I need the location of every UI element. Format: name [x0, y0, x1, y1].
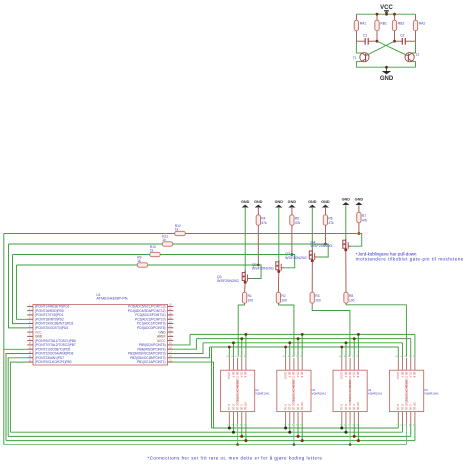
wire GND to Q1 drain	[244, 208, 246, 271]
svg-text:T2: T2	[415, 53, 419, 57]
wire drop bus 3 to display U4	[345, 343, 347, 358]
svg-text:R1: R1	[248, 294, 252, 298]
pin 18 stub (right)	[168, 348, 174, 350]
wire R4 bottom lead to gate net	[257, 225, 259, 265]
svg-text:(10) G: (10) G	[396, 372, 400, 379]
pin stub top 1 of U4	[341, 358, 343, 370]
7-segment display U4 VQMR10A1 body	[333, 370, 367, 411]
pin 7 stub (left)	[27, 331, 33, 333]
IC U1 ATMEGA328P-PN body	[33, 304, 168, 365]
wire drop bus 3 to display U2	[232, 343, 234, 358]
resistor RA1	[354, 20, 358, 31]
wire gate net R10 right segment	[160, 254, 295, 256]
resistor R8 100	[344, 292, 348, 303]
svg-text:R7: R7	[362, 214, 366, 218]
transistor Q1 WSF20N20G	[244, 271, 246, 282]
svg-text:(7) A: (7) A	[352, 372, 356, 378]
node R5 junction on gate wire	[291, 253, 294, 256]
svg-text:47k: 47k	[362, 218, 368, 222]
transistor Q3 WSF20N20G	[311, 250, 313, 261]
svg-text:DP (5): DP (5)	[244, 402, 248, 410]
svg-text:GND: GND	[380, 76, 394, 82]
wire RA1 to C1	[355, 31, 357, 42]
wire IC right pin row 10 to top bus 1	[173, 334, 190, 345]
pin 8 stub (left)	[27, 335, 33, 337]
wire rise bottom bus C to display U2	[241, 424, 243, 437]
svg-text:47k: 47k	[261, 221, 267, 225]
pin 28 stub (right)	[168, 305, 174, 307]
svg-text:100: 100	[281, 298, 287, 302]
wire gate elbow to Q1	[251, 265, 261, 279]
svg-text:(6) B: (6) B	[244, 372, 248, 378]
wire gate net R12 right segment	[185, 233, 362, 235]
pin 23 stub (right)	[168, 327, 174, 329]
pin 1 stub (left)	[27, 305, 33, 307]
wire RA2 top lead	[415, 14, 417, 20]
node bottom bus COMMON junction U2	[236, 443, 239, 446]
pin stub top 4 of U3	[297, 358, 299, 370]
svg-text:(7) A: (7) A	[296, 372, 300, 378]
svg-text:DP (5): DP (5)	[413, 402, 417, 410]
svg-text:C (4): C (4)	[409, 404, 413, 410]
resistor R9 1k (series gate)	[137, 263, 148, 267]
node bottom bus D junction U4	[344, 431, 347, 434]
resistor R6 47k pull-down	[323, 215, 327, 226]
wire rise bottom bus COMMON to display U3	[293, 424, 295, 445]
node bus 1 junction display U4	[357, 333, 360, 336]
wire PD5 pin row to left vertical	[4, 348, 27, 350]
svg-text:E (1): E (1)	[283, 404, 287, 410]
svg-text:ATMEGA328P-PN: ATMEGA328P-PN	[96, 297, 127, 301]
svg-text:GND: GND	[321, 200, 330, 204]
svg-text:RB2: RB2	[398, 22, 405, 26]
svg-text:VQMR10A1: VQMR10A1	[424, 392, 439, 396]
pin 10 stub (left)	[27, 344, 33, 346]
svg-text:(9) F: (9) F	[344, 372, 348, 378]
svg-text:DP (5): DP (5)	[300, 402, 304, 410]
pin stub top 3 of U2	[237, 358, 239, 370]
svg-text:(6) B: (6) B	[413, 372, 417, 378]
wire rise bottom bus DP to display U5	[414, 424, 416, 441]
wire bottom bus D	[10, 431, 402, 433]
wire PD6 loop to bottom DP bus	[6, 354, 27, 441]
svg-text:T1: T1	[353, 56, 357, 60]
wire drop bus 1 to display U3	[301, 334, 303, 357]
node bus 1 junction display U2	[245, 333, 248, 336]
svg-text:VQMR10A1: VQMR10A1	[368, 392, 383, 396]
wire drop bus 2 to display U2	[241, 339, 243, 358]
resistor R12 1k (series gate)	[175, 231, 186, 235]
pin stub top 1 of U5	[397, 358, 399, 370]
wire IC right pin row 11 to top bus 2	[173, 339, 196, 350]
wire GND to Q2 drain	[278, 208, 280, 260]
wire gate net R12 left segment	[4, 233, 175, 235]
svg-text:COMMON CATHODE (3): COMMON CATHODE (3)	[348, 380, 352, 410]
resistor R2 100	[276, 292, 280, 303]
pin 27 stub (right)	[168, 310, 174, 312]
svg-text:COMMON CATHODE (3): COMMON CATHODE (3)	[292, 380, 296, 410]
svg-text:*Connections her ser litt rare: *Connections her ser litt rare ut, men d…	[148, 455, 323, 460]
pin 20 stub (right)	[168, 340, 174, 342]
svg-text:E (1): E (1)	[396, 404, 400, 410]
wire PD7 loop to bottom C bus	[8, 358, 27, 437]
svg-text:COMMON CATHODE (3): COMMON CATHODE (3)	[404, 380, 408, 410]
pin stub top 3 of U5	[406, 358, 408, 370]
svg-text:47k: 47k	[328, 221, 334, 225]
node bottom bus COMMON junction U4	[349, 443, 352, 446]
wire bottom bus E	[212, 427, 399, 429]
pin stub top 1 of U3	[285, 358, 287, 370]
svg-text:WSF20N20G: WSF20N20G	[311, 244, 333, 248]
svg-text:GND: GND	[288, 200, 297, 204]
wire rise bottom bus DP to display U3	[301, 424, 303, 441]
svg-text:R6: R6	[328, 217, 332, 221]
wire PB0 loop to bottom D bus	[10, 362, 27, 432]
svg-text:(7) A: (7) A	[240, 372, 244, 378]
node bottom bus C junction U2	[240, 435, 243, 438]
svg-text:GND: GND	[275, 200, 284, 204]
wire Q1 to R1	[244, 282, 247, 292]
wire gate elbow to Q4	[352, 234, 362, 247]
wire rise bottom bus E to display U4	[341, 424, 343, 429]
svg-text:(10) G: (10) G	[340, 372, 344, 379]
wire rise bottom bus DP to display U2	[245, 424, 247, 441]
wire rise bottom bus E to display U3	[285, 424, 287, 429]
node R4 junction on gate wire	[257, 264, 260, 267]
wire IC right pin row 13 to top bus 4	[173, 347, 209, 358]
svg-text:U3: U3	[312, 388, 316, 392]
svg-text:(7) A: (7) A	[409, 372, 413, 378]
wire R8 to display U5 common	[345, 303, 347, 305]
pin stub top 4 of U4	[353, 358, 355, 370]
node bottom bus E junction U4	[340, 427, 343, 430]
wire rise bottom bus E to display U5	[397, 424, 399, 429]
wire left loop R10 to PD3	[13, 255, 28, 324]
svg-text:U2: U2	[255, 388, 259, 392]
wire drop bus 2 to display U4	[353, 339, 355, 358]
wire R1 to display U2 common	[244, 303, 246, 305]
wire descender from bus4 region	[211, 347, 213, 428]
pin 16 stub (right)	[168, 357, 174, 359]
node RB2/C2 junction	[393, 40, 396, 43]
wire rise bottom bus COMMON to display U2	[237, 424, 239, 445]
svg-text:RA1: RA1	[360, 22, 367, 26]
svg-text:D (2): D (2)	[344, 404, 348, 410]
wire rise bottom bus E to display U2	[228, 424, 230, 429]
svg-text:motstandere tilkoblet gate-pin: motstandere tilkoblet gate-pin til mosfe…	[356, 256, 464, 261]
svg-text:(9) F: (9) F	[288, 372, 292, 378]
resistor R11 1k (series gate)	[162, 242, 173, 246]
wire IC right pin PB1 descends to bottom E bus	[173, 362, 213, 428]
pin stub top 5 of U4	[357, 358, 359, 370]
7-segment display U2 VQMR10A1 body	[221, 370, 255, 411]
node bus 1 junction display U3	[301, 333, 304, 336]
svg-text:GND: GND	[355, 198, 364, 202]
svg-text:47k: 47k	[295, 221, 301, 225]
wire rise bottom bus C to display U5	[410, 424, 412, 437]
resistor R5 47k pull-down	[290, 215, 294, 226]
pin 22 stub (right)	[168, 331, 174, 333]
pin stub top 3 of U4	[349, 358, 351, 370]
svg-text:R3: R3	[315, 294, 319, 298]
pin 17 stub (right)	[168, 352, 174, 354]
wire R7 bottom lead to gate net	[358, 223, 360, 234]
svg-text:E (1): E (1)	[340, 404, 344, 410]
svg-text:RA2: RA2	[419, 22, 426, 26]
svg-text:C (4): C (4)	[352, 404, 356, 410]
wire left loop vertical R12/PD5 net	[3, 234, 5, 445]
pin 25 stub (right)	[168, 318, 174, 320]
wire rise bottom bus COMMON to display U4	[349, 424, 351, 445]
svg-text:U4: U4	[368, 388, 372, 392]
resistor R10 1k (series gate)	[150, 252, 161, 256]
node R7 junction on gate wire	[358, 232, 361, 235]
wire top bus 1	[190, 333, 415, 335]
svg-text:1k: 1k	[137, 259, 141, 263]
wire RA1 column to T1 collector	[355, 41, 357, 53]
node bus 2 junction display U4	[353, 337, 356, 340]
svg-text:C (4): C (4)	[296, 404, 300, 410]
wire rise bottom bus D to display U3	[289, 424, 291, 433]
pin 9 stub (left)	[27, 340, 33, 342]
node bottom bus D junction U2	[232, 431, 235, 434]
node bus 3 junction display U3	[288, 341, 291, 344]
transistor Q4 WSF20N20G	[345, 239, 347, 250]
wire top bus 3	[203, 342, 402, 344]
resistor R1 100	[242, 292, 246, 303]
wire gate elbow to Q2	[285, 255, 295, 268]
wire drop bus 4 to display U4	[341, 347, 343, 358]
7-segment display U5 VQMR10A1 body	[390, 370, 424, 411]
node bottom bus DP junction U3	[301, 439, 304, 442]
wire drop bus 4 to display U5	[397, 347, 399, 358]
svg-text:GND: GND	[308, 200, 317, 204]
wire drop bus 2 to display U3	[297, 339, 299, 358]
wire Q2 to R2	[277, 271, 279, 292]
wire rise bottom bus D to display U2	[232, 424, 234, 433]
resistor R7 47k pull-down	[357, 212, 361, 223]
wire GND to R6 pulldown top lead	[324, 208, 326, 215]
wire drop bus 2 to display U5	[410, 339, 412, 358]
pin stub top 5 of U5	[414, 358, 416, 370]
pin 3 stub (left)	[27, 314, 33, 316]
node bottom bus DP junction U2	[244, 439, 247, 442]
ground symbol GND (multivibrator)	[386, 67, 388, 71]
wire rise bottom bus D to display U5	[401, 424, 403, 433]
pin 11 stub (left)	[27, 348, 33, 350]
node bottom bus DP junction U4	[357, 439, 360, 442]
wire RB2 top lead	[394, 14, 396, 20]
wire cross RB2 to T1 base	[366, 41, 395, 55]
svg-text:D (2): D (2)	[288, 404, 292, 410]
pin stub top 2 of U4	[345, 358, 347, 370]
wire drop bus 1 to display U2	[245, 334, 247, 357]
node VCC-rail junction at RB1	[376, 13, 379, 16]
pin 12 stub (left)	[27, 352, 33, 354]
pin stub top 2 of U3	[289, 358, 291, 370]
wire R3 to display U4 common	[311, 303, 313, 305]
svg-text:C1: C1	[363, 34, 367, 38]
wire bottom bus DP	[6, 440, 415, 442]
wire drop bus 1 to display U4	[357, 334, 359, 357]
svg-text:C2: C2	[400, 34, 404, 38]
wire GND to R5 pulldown top lead	[291, 208, 293, 215]
wire VCC top rail	[356, 13, 415, 15]
wire top bus 2	[196, 338, 410, 340]
wire top bus 4	[210, 346, 399, 348]
wire GND to Q4 drain	[345, 205, 347, 238]
wire gate net R11 right segment	[173, 243, 329, 245]
pin 26 stub (right)	[168, 314, 174, 316]
pin 19 stub (right)	[168, 344, 174, 346]
wire RA1 top lead	[355, 14, 357, 20]
node VCC-rail junction at VCC stub	[385, 13, 388, 16]
node R6 junction on gate wire	[324, 243, 327, 246]
resistor RB1	[375, 20, 379, 31]
pin 4 stub (left)	[27, 318, 33, 320]
wire gate elbow to Q3	[318, 244, 328, 257]
svg-text:PB1(OC1A/PCINT1): PB1(OC1A/PCINT1)	[137, 360, 166, 364]
node bottom bus COMMON junction U3	[293, 443, 296, 446]
pin 14 stub (left)	[27, 361, 33, 363]
transistor Q2 WSF20N20G	[278, 260, 280, 271]
svg-text:1k: 1k	[162, 238, 166, 242]
7-segment display U3 VQMR10A1 body	[277, 370, 311, 411]
wire R2 to display U3 common	[277, 303, 279, 305]
svg-text:DP (5): DP (5)	[356, 402, 360, 410]
svg-text:GND: GND	[241, 200, 250, 204]
node bus 4 junction display U2	[228, 346, 231, 349]
node bottom bus E junction U3	[284, 427, 287, 430]
svg-text:100: 100	[315, 298, 321, 302]
svg-text:(9) F: (9) F	[231, 372, 235, 378]
wire drop bus 4 to display U3	[285, 347, 287, 358]
wire GND to R7 pulldown top lead	[358, 205, 360, 212]
node bottom bus E junction U2	[228, 427, 231, 430]
node bottom rail GND junction	[385, 66, 388, 69]
pin 13 stub (left)	[27, 357, 33, 359]
pin 24 stub (right)	[168, 323, 174, 325]
node bottom bus D junction U3	[288, 431, 291, 434]
svg-text:(10) G: (10) G	[283, 372, 287, 379]
node bottom bus C junction U3	[297, 435, 300, 438]
svg-text:U5: U5	[424, 388, 428, 392]
node VCC-rail junction at RB2	[393, 13, 396, 16]
svg-text:(10) G: (10) G	[227, 372, 231, 379]
svg-text:100: 100	[349, 298, 355, 302]
pin 21 stub (right)	[168, 335, 174, 337]
pin stub top 5 of U3	[301, 358, 303, 370]
pin stub top 3 of U3	[293, 358, 295, 370]
wire rise bottom bus DP to display U4	[357, 424, 359, 441]
svg-text:R2: R2	[281, 294, 285, 298]
node bottom bus C junction U4	[353, 435, 356, 438]
svg-text:(PCINT0/CLKO/ICP1)PB0: (PCINT0/CLKO/ICP1)PB0	[35, 360, 72, 364]
wire RB1 top lead	[376, 14, 378, 20]
wire cross RB1 to T2 base	[377, 41, 408, 56]
wire RB2 bottom to C2	[394, 31, 396, 42]
wire drop bus 3 to display U5	[401, 343, 403, 358]
pin stub top 4 of U5	[410, 358, 412, 370]
wire gate net R11 left segment	[9, 243, 163, 245]
node bus 4 junction display U4	[340, 346, 343, 349]
pin stub top 2 of U2	[232, 358, 234, 370]
node bus 2 junction display U2	[240, 337, 243, 340]
wire GND to Q3 drain	[311, 208, 313, 250]
svg-text:WSF20N20G: WSF20N20G	[252, 267, 274, 271]
pin stub top 1 of U2	[228, 358, 230, 370]
wire GND to R4 pulldown top lead	[257, 208, 259, 215]
pin stub top 4 of U2	[241, 358, 243, 370]
wire gate net R9 left segment	[17, 264, 138, 266]
svg-text:1k: 1k	[175, 228, 179, 232]
svg-text:(9) F: (9) F	[400, 372, 404, 378]
pin stub top 2 of U5	[401, 358, 403, 370]
resistor R4 47k pull-down	[256, 215, 260, 226]
svg-text:D (2): D (2)	[231, 404, 235, 410]
svg-text:R4: R4	[261, 217, 265, 221]
wire drop bus 1 to display U5	[414, 334, 416, 357]
wire R6 bottom lead to gate net	[324, 225, 326, 244]
wire C1 to RB1 bottom	[368, 40, 377, 42]
resistor RA2	[413, 20, 417, 31]
wire Q3 to R3	[311, 261, 313, 293]
wire rise bottom bus COMMON to display U5	[406, 424, 408, 445]
svg-text:100: 100	[248, 298, 254, 302]
wire drop bus 3 to display U3	[289, 343, 291, 358]
wire drop bus 4 to display U2	[228, 347, 230, 358]
svg-text:R5: R5	[295, 217, 299, 221]
svg-text:WSF20N20G: WSF20N20G	[285, 256, 307, 260]
wire IC right pin row 12 to top bus 3	[173, 343, 203, 354]
svg-text:WSF20N20G: WSF20N20G	[217, 279, 239, 283]
wire R5 bottom lead to gate net	[291, 225, 293, 254]
svg-text:D (2): D (2)	[400, 404, 404, 410]
pin 6 stub (left)	[27, 327, 33, 329]
pin 2 stub (left)	[27, 310, 33, 312]
node C1/RB1 junction	[376, 40, 379, 43]
svg-text:VQMR10A1: VQMR10A1	[312, 392, 327, 396]
svg-text:RB1: RB1	[380, 22, 387, 26]
pin 15 stub (right)	[168, 361, 174, 363]
svg-text:VQMR10A1: VQMR10A1	[255, 392, 270, 396]
wire rise bottom bus C to display U3	[297, 424, 299, 437]
transistor T2	[405, 53, 414, 62]
wire rise bottom bus C to display U4	[353, 424, 355, 437]
wire left loop R9 to PD2	[17, 265, 28, 319]
svg-text:GND: GND	[254, 200, 263, 204]
node bus 3 junction display U4	[345, 341, 348, 344]
wire RA2 column to T2 collector	[415, 41, 417, 53]
wire Q4 to R8	[345, 250, 347, 293]
wire bottom bus COMMON	[4, 444, 407, 446]
transistor T1	[360, 53, 369, 62]
wire gate net R10 left segment	[13, 254, 150, 256]
svg-text:1k: 1k	[150, 249, 154, 253]
svg-text:GND: GND	[342, 198, 351, 202]
wire left loop R11 to PD4	[9, 244, 28, 328]
node bus 3 junction display U2	[232, 341, 235, 344]
wire bottom bus C	[8, 435, 411, 437]
pin stub top 5 of U2	[245, 358, 247, 370]
node bus 2 junction display U3	[297, 337, 300, 340]
svg-text:R8: R8	[349, 294, 353, 298]
svg-text:C (4): C (4)	[240, 404, 244, 410]
resistor RB2	[392, 20, 396, 31]
svg-text:COMMON CATHODE (3): COMMON CATHODE (3)	[235, 380, 239, 410]
pin 5 stub (left)	[27, 323, 33, 325]
svg-text:E (1): E (1)	[227, 404, 231, 410]
